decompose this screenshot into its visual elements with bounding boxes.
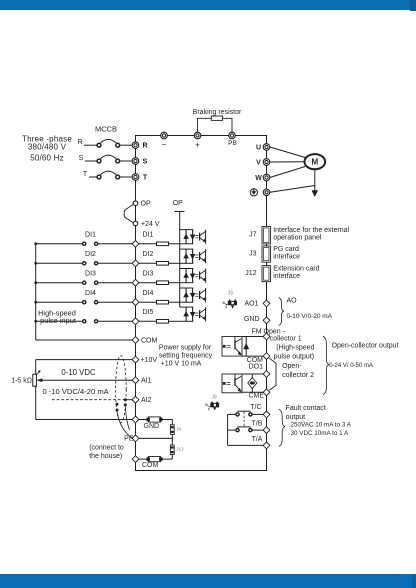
svg-text:Braking resistor: Braking resistor	[193, 109, 242, 116]
svg-text:DI1: DI1	[143, 232, 154, 239]
svg-text:interface: interface	[273, 273, 300, 280]
svg-text:V: V	[256, 159, 261, 166]
svg-text:AI2: AI2	[141, 397, 152, 404]
svg-text:+10V: +10V	[141, 357, 158, 364]
svg-text:T: T	[83, 171, 88, 178]
svg-text:DI4: DI4	[85, 290, 96, 297]
svg-text:Interface for the external: Interface for the external	[273, 227, 349, 234]
svg-text:J7: J7	[249, 231, 257, 238]
svg-text:J8: J8	[211, 395, 217, 401]
svg-text:T/B: T/B	[252, 421, 263, 428]
svg-text:PB: PB	[228, 140, 237, 147]
svg-text:PE: PE	[124, 436, 134, 443]
svg-text:T/C: T/C	[250, 404, 261, 411]
svg-text:PG card: PG card	[273, 246, 299, 253]
svg-text:(connect to: (connect to	[89, 444, 124, 451]
svg-text:pulse output): pulse output)	[274, 354, 314, 361]
svg-text:Open-collector output: Open-collector output	[332, 342, 399, 349]
svg-text:collector 1: collector 1	[270, 336, 302, 343]
svg-text:DI4: DI4	[143, 290, 154, 297]
svg-text:S: S	[143, 158, 148, 165]
svg-text:U: U	[256, 144, 261, 151]
svg-text:+24 V: +24 V	[141, 221, 160, 228]
svg-text:pulse input: pulse input	[40, 316, 76, 325]
svg-text:0-10 VDC: 0-10 VDC	[61, 368, 96, 377]
svg-text:0-24 V/ 0-50 mA: 0-24 V/ 0-50 mA	[329, 363, 373, 369]
svg-text:J13: J13	[176, 447, 184, 452]
svg-text:+: +	[195, 140, 200, 149]
svg-text:J4: J4	[176, 426, 181, 431]
svg-text:AI1: AI1	[141, 378, 152, 385]
svg-text:CME: CME	[248, 393, 264, 400]
svg-text:interface: interface	[273, 253, 300, 260]
svg-text:R: R	[77, 139, 82, 146]
svg-text:J5: J5	[228, 291, 234, 297]
svg-text:OP: OP	[173, 200, 183, 207]
svg-text:OP: OP	[141, 201, 151, 208]
svg-text:DI3: DI3	[143, 271, 154, 278]
svg-text:1-5 kΩ: 1-5 kΩ	[11, 378, 32, 385]
svg-text:GND: GND	[144, 423, 160, 430]
svg-text:DI5: DI5	[143, 309, 154, 316]
svg-text:GND: GND	[244, 316, 260, 323]
svg-text:(High-speed: (High-speed	[276, 345, 314, 352]
svg-text:MCCB: MCCB	[95, 125, 117, 134]
svg-text:Open-: Open-	[282, 363, 302, 370]
svg-text:collector 2: collector 2	[282, 372, 314, 379]
svg-text:AO1: AO1	[244, 301, 258, 308]
svg-text:0-10 V/0-20 mA: 0-10 V/0-20 mA	[287, 313, 333, 320]
svg-text:J3: J3	[249, 250, 257, 257]
svg-text:30 VDC 10mA to 1 A: 30 VDC 10mA to 1 A	[291, 430, 350, 437]
svg-text:50/60 Hz: 50/60 Hz	[30, 153, 64, 162]
svg-text:COM: COM	[141, 337, 158, 344]
svg-text:+10 V 10 mA: +10 V 10 mA	[161, 361, 202, 368]
svg-text:J12: J12	[245, 270, 256, 277]
svg-text:T/A: T/A	[252, 436, 263, 443]
svg-text:AO: AO	[287, 298, 298, 305]
svg-text:setting frequency: setting frequency	[159, 352, 213, 359]
svg-text:DI3: DI3	[85, 271, 96, 278]
svg-text:380/480 V: 380/480 V	[28, 142, 67, 151]
svg-text:Fault contact: Fault contact	[286, 405, 326, 412]
svg-text:DO1: DO1	[249, 363, 264, 370]
svg-text:−: −	[162, 140, 167, 149]
svg-text:COM: COM	[142, 462, 159, 469]
svg-text:DI1: DI1	[85, 232, 96, 239]
svg-text:operation panel: operation panel	[273, 235, 322, 242]
svg-text:0 -10 VDC/4-20 mA: 0 -10 VDC/4-20 mA	[42, 387, 109, 396]
svg-text:S: S	[79, 155, 84, 162]
svg-text:Extension card: Extension card	[273, 266, 319, 273]
svg-text:M: M	[311, 158, 318, 167]
svg-text:DI2: DI2	[143, 251, 154, 258]
svg-text:the house): the house)	[89, 453, 122, 460]
svg-text:Power supply for: Power supply for	[159, 344, 212, 351]
svg-text:DI2: DI2	[85, 251, 96, 258]
svg-text:T: T	[143, 174, 148, 181]
svg-text:FM Open -: FM Open -	[252, 329, 286, 336]
svg-text:output: output	[286, 414, 306, 421]
svg-text:R: R	[142, 143, 147, 150]
svg-text:W: W	[255, 175, 262, 182]
svg-text:250VAC 10 mA to 3 A: 250VAC 10 mA to 3 A	[291, 422, 352, 429]
